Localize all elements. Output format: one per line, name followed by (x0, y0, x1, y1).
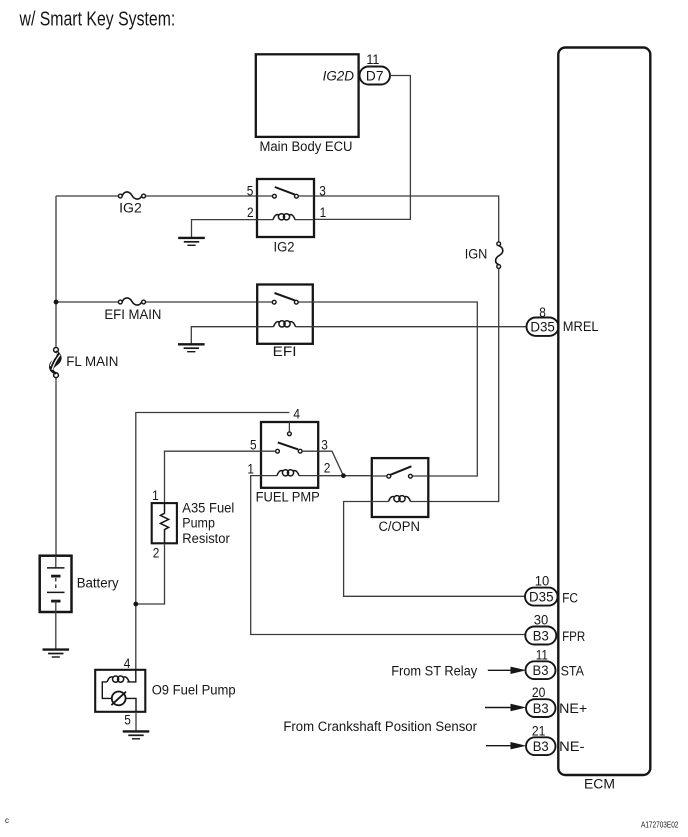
svg-text:3: 3 (319, 183, 326, 198)
relay FUEL PMP pin 4 wire (288, 422, 290, 432)
fuel pump motor slash (111, 692, 126, 705)
svg-text:w/ Smart Key System:: w/ Smart Key System: (19, 9, 176, 31)
fuel pump pin 4 internal wire (127, 670, 136, 682)
wire EFI relay switch to C/OPN relay switch (313, 302, 478, 476)
svg-text:IG2: IG2 (274, 239, 295, 254)
relay FUEL PMP coil (277, 470, 299, 476)
svg-text:NE-: NE- (559, 739, 584, 754)
svg-text:D35: D35 (529, 590, 554, 605)
svg-text:5: 5 (250, 438, 257, 453)
connector B3 STA (526, 661, 584, 679)
wire FUEL PMP relay pin 4 to fuel pump (136, 413, 290, 670)
wire EFI relay coil to ground (191, 327, 257, 344)
relay EFI coil wires (257, 326, 313, 328)
ground IG2 relay (178, 238, 205, 245)
svg-text:FL MAIN: FL MAIN (66, 354, 118, 369)
connector D7 (360, 67, 391, 85)
svg-text:2: 2 (324, 460, 331, 475)
wire IG2 relay pin 2 to ground (192, 220, 258, 238)
svg-text:A172703E02: A172703E02 (641, 820, 679, 829)
resistor A35 zigzag element (160, 503, 168, 543)
relay IG2 box (257, 179, 314, 237)
svg-text:EFI MAIN: EFI MAIN (104, 307, 161, 322)
battery dashed link (55, 578, 57, 591)
svg-text:11: 11 (366, 52, 379, 67)
relay FUEL PMP switch contacts (276, 449, 280, 453)
battery plate short 1 (51, 575, 60, 578)
svg-text:B3: B3 (533, 739, 549, 754)
fuel pump coil to motor wire (102, 682, 112, 699)
svg-text:3: 3 (321, 438, 328, 453)
svg-text:4: 4 (293, 406, 300, 421)
relay FUEL PMP switch arm (278, 442, 298, 449)
connector B3 FPR (525, 627, 585, 645)
svg-text:STA: STA (561, 663, 584, 678)
svg-text:2: 2 (153, 545, 160, 560)
svg-text:10: 10 (535, 573, 550, 588)
relay FUEL PMP coil wires (261, 475, 318, 477)
relay EFI (257, 285, 313, 359)
Main Body ECU box (256, 54, 359, 137)
svg-text:Battery: Battery (77, 575, 119, 590)
ECM box (558, 48, 650, 776)
svg-text:1: 1 (247, 461, 254, 476)
battery top stub wire (55, 556, 57, 568)
battery plate long 2 (47, 591, 65, 593)
svg-text:O9 Fuel Pump: O9 Fuel Pump (152, 682, 236, 697)
battery plate short 2 (51, 600, 60, 603)
relay C/OPN coil (389, 496, 411, 502)
svg-text:Pump: Pump (182, 515, 215, 530)
ground battery (43, 650, 70, 657)
svg-text:Resistor: Resistor (182, 531, 230, 546)
svg-text:D7: D7 (366, 69, 384, 84)
ground fuel pump (123, 731, 150, 738)
svg-text:IG2D: IG2D (323, 68, 355, 83)
relay EFI switch contacts (272, 300, 276, 304)
fuse EFI MAIN (118, 298, 145, 305)
wire IG2 relay pin 3 to fuse IGN (314, 196, 499, 242)
wire main battery feed vertical (55, 196, 57, 556)
fuel pump choke coil (107, 676, 129, 682)
relay EFI switch contact wires (257, 301, 313, 303)
relay IG2 coil (273, 214, 295, 220)
battery box (40, 556, 72, 612)
svg-text:B3: B3 (533, 663, 549, 678)
resistor A35 box (152, 503, 177, 543)
ground EFI relay (178, 344, 205, 351)
svg-text:Main Body ECU: Main Body ECU (260, 139, 353, 154)
svg-text:B3: B3 (533, 628, 549, 643)
svg-text:1: 1 (320, 205, 327, 220)
wire battery node to fuse IG2 to relay pin 5 (56, 195, 257, 197)
ECM (558, 48, 650, 792)
connector D35 FC (525, 588, 578, 606)
relay FUEL PMP (247, 406, 330, 504)
motor O9 fuel pump (95, 656, 235, 727)
svg-text:c: c (5, 816, 9, 825)
svg-text:20: 20 (532, 685, 546, 700)
wire fuse IGN to C/OPN relay coil (428, 268, 498, 501)
node battery-EFI MAIN junction (54, 300, 59, 305)
battery bottom stub wire (55, 601, 57, 612)
svg-text:4: 4 (124, 656, 131, 671)
relay EFI coil (274, 321, 296, 327)
svg-text:MREL: MREL (563, 319, 599, 334)
relay C/OPN circuit opening relay (372, 458, 429, 534)
relay IG2 switch contact wires (257, 195, 314, 197)
svg-text:FC: FC (562, 590, 578, 605)
fuse IG2 (118, 192, 145, 199)
svg-text:From Crankshaft Position Senso: From Crankshaft Position Sensor (283, 719, 477, 734)
svg-text:EFI: EFI (273, 344, 297, 359)
relay IG2 switch arm (275, 187, 295, 195)
svg-text:FPR: FPR (562, 629, 585, 644)
connector D35 MREL (527, 318, 599, 336)
svg-text:NE+: NE+ (559, 701, 587, 716)
relay C/OPN switch arm (390, 466, 411, 475)
wire fuel pump to ground (135, 712, 137, 731)
battery plate long 1 (47, 567, 65, 569)
fusible link FL MAIN (50, 348, 118, 378)
svg-text:IG2: IG2 (119, 200, 142, 215)
fuel pump motor circle (112, 692, 126, 706)
relay FUEL PMP switch contact wires (261, 450, 318, 452)
fuse IGN (496, 242, 503, 268)
connector B3 NE+ (526, 699, 587, 717)
relay C/OPN switch contacts (387, 474, 391, 478)
connector B3 NE- (526, 737, 585, 755)
relay C/OPN box (372, 458, 429, 517)
relay C/OPN switch contact wires (372, 475, 429, 477)
svg-text:5: 5 (247, 183, 254, 198)
svg-text:C/OPN: C/OPN (378, 519, 420, 534)
arrow crankshaft sensor to NE- (486, 742, 526, 749)
battery (40, 556, 119, 612)
relay FUEL PMP box (261, 422, 318, 488)
wire battery to ground (55, 612, 57, 649)
svg-text:1: 1 (152, 488, 159, 503)
svg-text:B3: B3 (533, 701, 549, 716)
relay C/OPN coil wires (372, 501, 429, 503)
relay IG2 (247, 179, 326, 254)
svg-text:30: 30 (534, 613, 549, 628)
fuel pump motor to pin 5 wire (126, 698, 136, 711)
svg-text:5: 5 (124, 712, 131, 727)
svg-text:2: 2 (247, 205, 254, 220)
wire FUEL PMP relay pin 1 to FPR terminal (251, 476, 526, 635)
arrow ST Relay to STA (488, 667, 527, 674)
ECU Main Body ECU (256, 54, 359, 154)
wire D7 to IG2 relay pin 1 (314, 76, 410, 220)
arrow crankshaft sensor to NE+ (485, 704, 526, 711)
wire resistor pin 2 to fuel pump node (138, 543, 165, 604)
wire C/OPN relay coil to FC terminal (344, 502, 526, 597)
wire FUEL PMP relay pin 5 to resistor pin 1 (165, 451, 262, 503)
wire EFI relay coil to MREL terminal (313, 326, 527, 328)
svg-text:From ST Relay: From ST Relay (391, 663, 477, 678)
svg-text:IGN: IGN (465, 247, 488, 262)
node fuel pump resistor junction (133, 602, 138, 607)
resistor A35 fuel pump resistor (152, 488, 235, 560)
wire FUEL PMP relay pin 3 to node (318, 451, 343, 476)
relay EFI box (257, 285, 313, 344)
relay IG2 coil wires (257, 219, 314, 221)
node C/OPN switch junction (341, 473, 346, 478)
svg-text:FUEL PMP: FUEL PMP (256, 490, 320, 505)
wire FUEL PMP relay pin 2 to C/OPN relay switch (318, 475, 372, 477)
svg-text:D35: D35 (530, 320, 555, 335)
relay IG2 switch contacts (273, 194, 277, 198)
wire battery node to fuse EFI MAIN to EFI relay (56, 301, 257, 303)
fuel pump box (95, 670, 145, 712)
relay FUEL PMP pivot contact (288, 432, 292, 436)
relay EFI switch arm (275, 293, 296, 300)
svg-text:A35 Fuel: A35 Fuel (182, 500, 234, 515)
svg-text:ECM: ECM (584, 776, 615, 791)
